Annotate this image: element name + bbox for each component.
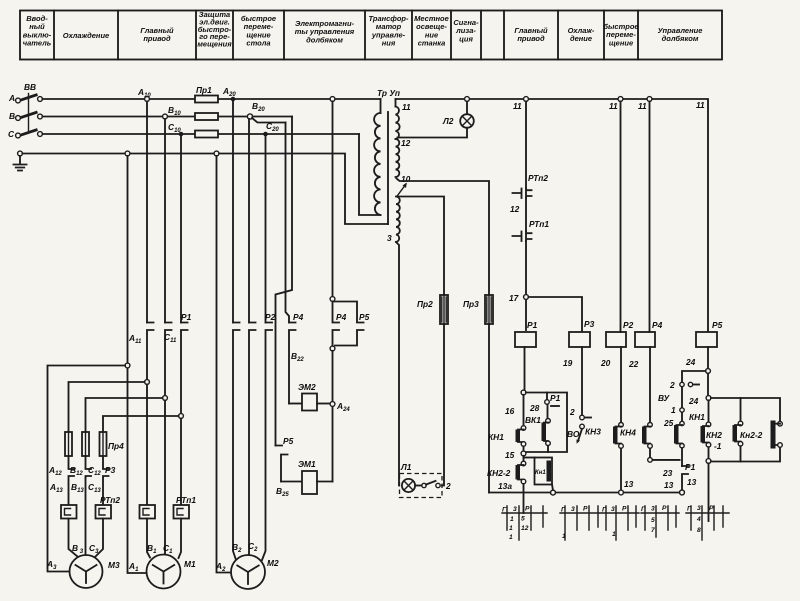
svg-text:М2: М2: [267, 558, 279, 568]
relay coil P4: [635, 332, 655, 347]
wire: node 17 to P3: [528, 297, 582, 332]
button KH2-1: [706, 398, 743, 462]
contact P5 for EM1: [276, 446, 288, 482]
svg-text:Р2: Р2: [265, 312, 276, 322]
terminal strip A: [502, 506, 547, 542]
button KH2-2 chain: [487, 456, 526, 513]
svg-text:3: 3: [697, 505, 701, 512]
node A20: [231, 97, 236, 102]
svg-text:12: 12: [401, 138, 411, 148]
wire: net 10 from tap: [397, 179, 490, 296]
contactor P4 contact for EM2: [289, 323, 296, 404]
svg-text:8: 8: [697, 527, 701, 534]
svg-text:Тр Уп: Тр Уп: [377, 88, 400, 98]
svg-text:23: 23: [662, 468, 673, 478]
svg-text:1: 1: [612, 531, 616, 538]
relay coil P5: [696, 332, 717, 347]
transformer secondary winding 11-12: [395, 99, 397, 107]
svg-text:Р: Р: [662, 505, 667, 512]
svg-text:М1: М1: [184, 559, 196, 569]
svg-text:Р2: Р2: [623, 320, 634, 330]
wire: phase A bus: [42, 98, 380, 100]
wire: P1 coil bottom lead: [524, 347, 526, 393]
svg-text:13: 13: [664, 480, 674, 490]
relay coil P3: [569, 332, 590, 347]
ground symbol: [14, 151, 27, 170]
svg-text:Пр3: Пр3: [463, 299, 479, 309]
svg-text:РТп2: РТп2: [100, 495, 120, 505]
svg-text:РТп2: РТп2: [528, 173, 548, 183]
wire: node 11 drop to P4/P5 pair: [332, 101, 334, 299]
svg-text:11: 11: [402, 102, 411, 112]
relay coil P1: [515, 332, 536, 347]
button KH3: [585, 423, 623, 493]
svg-text:Местноеосвеще-ниестанка: Местноеосвеще-ниестанка: [414, 14, 449, 48]
thermal elements РТп1: [140, 495, 197, 558]
svg-text:Р3: Р3: [584, 319, 595, 329]
fuses Пр4: [65, 432, 124, 456]
electromagnet EM2: [289, 403, 302, 405]
transformer primary winding: [380, 99, 382, 113]
fuse Пр1 (three): [195, 85, 218, 138]
wire: P2 bottom lead: [620, 347, 622, 423]
svg-text:Р3: Р3: [105, 465, 116, 475]
svg-text:Р5: Р5: [359, 312, 370, 322]
wire: net 11 down to РТп2: [525, 101, 527, 188]
svg-text:КН1: КН1: [488, 432, 504, 442]
node C20: [263, 132, 268, 137]
node C10: [179, 132, 184, 137]
node on line 11 above transformer: [330, 97, 335, 102]
terminal strip E: [686, 505, 729, 540]
node: line 11 tap for lamp L2: [465, 97, 470, 102]
svg-text:Кн2-2: Кн2-2: [740, 430, 763, 440]
wire: P2 top lead: [620, 101, 622, 332]
svg-text:Пр2: Пр2: [417, 299, 433, 309]
svg-text:Р4: Р4: [652, 320, 663, 330]
wire: tap 3 down to lamp L1: [396, 242, 399, 486]
svg-text:12: 12: [521, 525, 529, 532]
wire: phase C bus: [42, 133, 359, 135]
svg-text:Л2: Л2: [442, 116, 454, 126]
wire: B20 drop: [248, 119, 250, 323]
svg-text:20: 20: [600, 358, 611, 368]
svg-text:Главныйпривод: Главныйпривод: [514, 26, 548, 43]
svg-text:22: 22: [628, 359, 639, 369]
wire: phase B bus: [42, 116, 247, 118]
wire: P4 top lead: [649, 101, 651, 332]
wire: A20 drop: [232, 99, 234, 323]
node: tap 4: [179, 414, 184, 419]
svg-text:Р4: Р4: [336, 312, 347, 322]
svg-text:11: 11: [696, 100, 705, 110]
wire: ground drop to M1: [128, 156, 147, 573]
wire: B20 straight branch down (P5/EM1): [276, 117, 293, 446]
wire: lower secondary top to fuse Пр2: [397, 197, 445, 296]
wire: ground bus: [22, 154, 388, 225]
contactor P3 contacts: [48, 456, 116, 505]
svg-text:ВК1: ВК1: [525, 415, 541, 425]
svg-text:С: С: [8, 129, 15, 139]
header table frame: [20, 11, 722, 60]
svg-text:Защитаэл.двиг.быстро-го пере-м: Защитаэл.двиг.быстро-го пере-мещения: [197, 10, 232, 49]
node: tap 2: [145, 380, 150, 385]
parallel rails for KH2-1 / Kn2-2: [711, 398, 780, 421]
wire: Пр3 down to bus 13: [488, 324, 490, 493]
svg-text:М3: М3: [108, 560, 120, 570]
motor M3: [70, 543, 120, 588]
terminal strip C: [602, 506, 639, 541]
svg-text:ЭМ1: ЭМ1: [298, 459, 316, 469]
svg-text:19: 19: [563, 358, 573, 368]
svg-text:1: 1: [509, 525, 513, 532]
svg-text:1: 1: [671, 405, 676, 415]
contactor P1 main contacts: [128, 312, 192, 414]
switch VU chain: [658, 380, 699, 495]
wire: primary bottom to phase C: [359, 134, 381, 215]
svg-text:РТп1: РТп1: [529, 219, 549, 229]
svg-text:А: А: [8, 93, 15, 103]
tap arrow: [398, 184, 407, 196]
switch BB: [16, 82, 43, 138]
node: tap 3: [163, 396, 168, 401]
svg-text:17: 17: [509, 293, 519, 303]
wire: P5 bottom lead: [707, 347, 709, 369]
svg-text:Р: Р: [525, 506, 530, 513]
svg-text:Р1: Р1: [527, 320, 538, 330]
thermal contact РТп2: [510, 173, 548, 214]
node: ground tap 1: [125, 151, 130, 156]
svg-text:11: 11: [513, 101, 522, 111]
svg-text:Р5: Р5: [283, 436, 294, 446]
svg-text:7: 7: [651, 527, 655, 534]
relay coil P2: [606, 332, 626, 347]
svg-text:3: 3: [611, 506, 615, 513]
svg-text:-1: -1: [714, 441, 722, 451]
contacts P4 P5 parallel pair: [330, 301, 369, 351]
svg-text:25: 25: [663, 418, 674, 428]
svg-text:Ввод-ныйвыклю-чатель: Ввод-ныйвыклю-чатель: [23, 14, 52, 48]
svg-text:Пр4: Пр4: [108, 441, 124, 451]
svg-text:Управлениедолбяком: Управлениедолбяком: [658, 26, 703, 43]
transformer secondary winding 12-10: [396, 139, 400, 177]
svg-text:КН1: КН1: [689, 412, 705, 422]
svg-text:Р: Р: [583, 506, 588, 513]
svg-text:Охлаж-дение: Охлаж-дение: [568, 26, 595, 43]
svg-text:Пр1: Пр1: [196, 85, 212, 95]
wire: between thermal contacts: [525, 198, 527, 231]
svg-text:Р1: Р1: [550, 393, 561, 403]
svg-text:ВО: ВО: [567, 429, 580, 439]
transformer secondary winding 3: [396, 197, 400, 243]
transformer core: [387, 112, 389, 224]
svg-text:12: 12: [510, 204, 520, 214]
thermal contact РТп1: [513, 219, 550, 241]
bus 13: [489, 492, 684, 494]
wire: ground drop to M2: [217, 156, 232, 573]
svg-text:Л1: Л1: [400, 462, 412, 472]
svg-text:1: 1: [509, 534, 513, 541]
wire: P5 chain down: [707, 373, 709, 395]
svg-text:16: 16: [505, 406, 515, 416]
svg-text:3: 3: [387, 233, 392, 243]
button KH1 aux chain: [689, 400, 711, 521]
svg-text:2: 2: [445, 481, 451, 491]
svg-text:1: 1: [562, 533, 566, 540]
svg-text:ЭМ2: ЭМ2: [298, 382, 316, 392]
svg-text:Кн1: Кн1: [535, 470, 546, 476]
terminal strip B: [560, 506, 601, 541]
wire: B20 blade branch down (P4/EM2): [286, 123, 290, 323]
motor M1: [128, 543, 196, 589]
svg-text:Р5: Р5: [712, 320, 723, 330]
terminal strip D: [641, 505, 679, 537]
svg-text:11: 11: [638, 101, 647, 111]
svg-text:Р4: Р4: [293, 312, 304, 322]
wire: P4 bottom lead: [649, 347, 651, 423]
svg-text:15: 15: [505, 450, 515, 460]
wire: C10 drop: [180, 134, 182, 323]
svg-text:Р1: Р1: [181, 312, 192, 322]
svg-text:Р: Р: [622, 506, 627, 513]
svg-text:Р: Р: [709, 505, 714, 512]
svg-text:ВВ: ВВ: [24, 82, 36, 92]
node 17: [524, 295, 529, 300]
wire: B10 drop: [164, 119, 166, 323]
wire: down to node 17: [525, 241, 527, 330]
svg-text:3: 3: [513, 506, 517, 513]
svg-text:1: 1: [510, 516, 514, 523]
contactor P2 main contacts: [233, 312, 276, 560]
svg-text:24: 24: [688, 396, 699, 406]
switch B20: [247, 114, 252, 119]
thermal elements РТп2: [61, 478, 120, 557]
wire: C20 drop: [265, 134, 267, 323]
interlock box with KH1 aux: [524, 458, 556, 496]
svg-text:РТп1: РТп1: [176, 495, 196, 505]
svg-text:5: 5: [521, 516, 525, 523]
svg-text:3: 3: [571, 506, 575, 513]
lamp L2: [398, 101, 474, 137]
svg-text:Р1: Р1: [685, 462, 696, 472]
wire: A10 drop: [146, 101, 148, 322]
svg-text:В: В: [9, 111, 15, 121]
svg-text:2: 2: [669, 380, 675, 390]
wire: KH1 rectangle loop: [526, 393, 567, 453]
wire: down to A24 and EM1: [332, 351, 334, 482]
wire: Пр2 down to lamp switch: [442, 324, 444, 486]
button KH1 (stop): [488, 395, 526, 460]
button KH4: [620, 423, 680, 463]
svg-text:Главныйпривод: Главныйпривод: [140, 26, 174, 43]
svg-text:4: 4: [696, 516, 701, 523]
svg-text:24: 24: [685, 357, 696, 367]
node circles on line 11: [524, 97, 529, 102]
button Kn2-2: [740, 421, 782, 449]
electromagnet EM1: [281, 481, 302, 483]
svg-text:5: 5: [651, 517, 655, 524]
wire: net 11 top bus right of transformer: [396, 99, 709, 332]
node: ground tap 2: [214, 151, 219, 156]
svg-text:13а: 13а: [498, 481, 512, 491]
svg-text:28: 28: [529, 403, 540, 413]
svg-text:КН2: КН2: [706, 430, 722, 440]
wire: A3 feeder: [48, 366, 126, 572]
svg-text:2: 2: [569, 407, 575, 417]
svg-text:10: 10: [401, 174, 411, 184]
node A10: [145, 97, 150, 102]
wire: branch to VU chain: [682, 371, 706, 382]
svg-text:КН3: КН3: [585, 427, 601, 437]
node: tap to A3: [125, 363, 130, 368]
motor M2: [215, 541, 279, 589]
lamp L1 with switch in dashed enclosure: [400, 462, 452, 498]
svg-text:ВУ: ВУ: [658, 393, 671, 403]
svg-text:13: 13: [687, 477, 697, 487]
svg-text:КН2-2: КН2-2: [487, 468, 511, 478]
wire: P3 bottom lead to BO switch: [581, 347, 583, 415]
svg-text:КН4: КН4: [620, 428, 636, 438]
svg-text:11: 11: [609, 101, 618, 111]
aux contact P1 with BK1: [525, 393, 561, 453]
svg-text:3: 3: [651, 506, 655, 513]
svg-text:Охлаждение: Охлаждение: [63, 31, 109, 40]
svg-text:13: 13: [624, 479, 634, 489]
node B10: [163, 114, 168, 119]
